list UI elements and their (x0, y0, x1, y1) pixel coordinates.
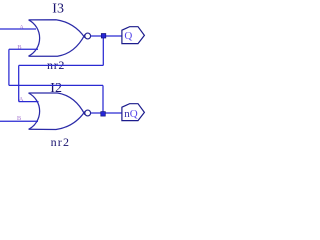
svg-text:nr2: nr2 (51, 135, 71, 149)
wire: feedback Q to I2 input A (horizontal into gate) (19, 101, 39, 103)
junction node Q (square) (101, 34, 106, 39)
wire: vertical segment from Q junction down (102, 36, 104, 65)
svg-text:Q: Q (124, 30, 132, 42)
wire: horizontal segment y=65.4 across to left (19, 64, 104, 66)
output port symbol nQ (122, 104, 144, 121)
wire: vertical segment x=18.7 down to I2 input A (18, 65, 20, 101)
wire: vertical segment x=8.9 from B input down (8, 49, 10, 85)
wire: feedback nQ to I3 input B (horizontal into gate) (9, 48, 38, 50)
svg-text:A: A (19, 24, 24, 31)
nor gate I2 body (mirrored copy) (29, 93, 85, 130)
wire: I2 bubble to output port nQ (91, 112, 122, 114)
wire: input B to gate I2 (0, 120, 38, 122)
wire: vertical segment x=103 down to nQ junction (102, 85, 104, 113)
svg-text:B: B (17, 44, 22, 51)
output port symbol Q (122, 27, 144, 44)
svg-text:nQ: nQ (124, 108, 138, 120)
svg-text:I2: I2 (50, 81, 62, 96)
junction node nQ (square) (101, 112, 106, 117)
nor gate I2 output bubble (85, 110, 91, 116)
nor gate I3 output bubble (85, 33, 91, 39)
wire: horizontal segment y=85.4 across to nQ node (9, 84, 103, 86)
wire: I3 bubble to output port Q (91, 35, 122, 37)
nor gate I3 body (29, 20, 85, 57)
svg-text:I3: I3 (52, 2, 64, 17)
wire: input A to gate I3 (0, 28, 36, 30)
